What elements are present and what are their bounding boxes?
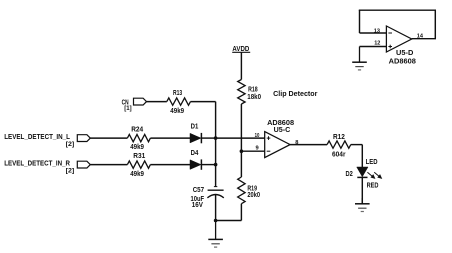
wire pin10 input [216, 137, 265, 139]
resistor R12 [327, 134, 351, 158]
wire CN to R13 [147, 101, 167, 103]
svg-text:R13: R13 [173, 90, 182, 97]
junction dot ground node [214, 219, 218, 223]
op-amp U5-C [265, 120, 295, 158]
wire pin9 input [241, 150, 264, 152]
wire D1 to node [202, 137, 216, 139]
label Clip Detector [273, 91, 318, 98]
port LEVEL_DETECT_IN_R [4, 161, 90, 175]
wire R24 to D1 [150, 137, 190, 139]
svg-text:R12: R12 [333, 134, 345, 141]
wire feedback loop U5-D [359, 10, 436, 39]
svg-text:D1: D1 [191, 124, 199, 131]
pin number 8 [295, 140, 299, 146]
svg-text:LEVEL_DETECT_IN_L: LEVEL_DETECT_IN_L [4, 134, 70, 141]
resistor R13 [167, 90, 191, 115]
svg-text:12: 12 [374, 41, 381, 47]
wire pin12 input [360, 46, 387, 48]
pin number 10 [255, 133, 260, 139]
svg-text:AD8608: AD8608 [389, 58, 416, 65]
svg-text:Clip Detector: Clip Detector [273, 91, 318, 98]
svg-text:10: 10 [255, 133, 260, 139]
wire pin8 output [290, 144, 327, 146]
svg-text:R24: R24 [131, 127, 143, 134]
svg-text:R18: R18 [248, 86, 258, 93]
svg-text:14: 14 [417, 34, 424, 40]
svg-text:R31: R31 [133, 153, 145, 160]
svg-text:U5-D: U5-D [396, 50, 413, 57]
resistor R18 [238, 80, 261, 105]
svg-text:LED: LED [366, 159, 378, 166]
port LEVEL_DETECT_IN_L [4, 134, 90, 148]
svg-text:18k0: 18k0 [247, 94, 261, 101]
diode D4 [190, 150, 201, 170]
wire R13 to node [191, 101, 216, 103]
junction dot D4 node [214, 163, 218, 167]
svg-text:49k9: 49k9 [130, 171, 144, 178]
svg-text:[2]: [2] [66, 141, 75, 148]
wire pin13 input [360, 32, 387, 34]
svg-text:RED: RED [367, 182, 379, 189]
wire tag L to R24 [90, 137, 127, 139]
pin number 9 [256, 145, 260, 151]
wire AVDD to R18 [240, 52, 242, 79]
ground below LED [355, 198, 370, 212]
junction dot D1 node [214, 136, 218, 140]
power net AVDD [232, 46, 250, 53]
LED D2 [346, 159, 382, 189]
resistor R31 [127, 153, 150, 178]
wire R31 to D4 [150, 164, 190, 166]
svg-text:U5-C: U5-C [274, 127, 291, 134]
ground below pin 12 [352, 47, 367, 70]
svg-text:49k9: 49k9 [130, 144, 144, 151]
junction dot pin9 node [240, 149, 244, 153]
svg-text:LEVEL_DETECT_IN_R: LEVEL_DETECT_IN_R [4, 161, 70, 168]
svg-text:[1]: [1] [124, 105, 131, 112]
wire C57 to ground node [215, 195, 217, 221]
connector CN [122, 98, 147, 112]
svg-text:49k9: 49k9 [170, 108, 184, 115]
svg-text:[2]: [2] [66, 168, 75, 175]
wire vertical signal net [215, 102, 217, 187]
wire R12 to LED [351, 145, 363, 167]
svg-text:AD8608: AD8608 [267, 120, 294, 127]
capacitor C57 [191, 187, 224, 209]
svg-text:16V: 16V [192, 202, 203, 209]
svg-text:604r: 604r [332, 151, 346, 158]
wire R19 to ground node [216, 204, 242, 221]
wire R18 to pin9 node [240, 104, 242, 151]
diode D1 [190, 124, 201, 144]
svg-text:C57: C57 [193, 187, 204, 194]
svg-text:13: 13 [374, 28, 381, 34]
wire tag R to R31 [90, 164, 127, 166]
svg-text:D4: D4 [191, 150, 199, 157]
ground below C57 [208, 221, 223, 248]
wire D4 to node [202, 164, 216, 166]
pin number 13 [374, 28, 381, 34]
svg-text:20k0: 20k0 [247, 192, 260, 199]
pin number 12 [374, 41, 381, 47]
resistor R24 [127, 127, 150, 152]
resistor R19 [238, 177, 260, 204]
wire LED to ground [361, 177, 363, 203]
op-amp U5-D [386, 26, 416, 65]
wire node to R19 [240, 151, 242, 177]
pin number 14 [417, 34, 424, 40]
svg-text:D2: D2 [346, 171, 353, 178]
